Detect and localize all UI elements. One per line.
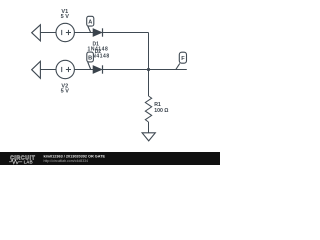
wire xyxy=(74,32,93,34)
wire xyxy=(148,122,150,133)
svg-text:A: A xyxy=(88,20,92,26)
voltage source V2 xyxy=(56,60,74,78)
svg-text:LAB: LAB xyxy=(24,159,33,164)
wire xyxy=(103,32,149,34)
flag B xyxy=(88,62,91,69)
wire xyxy=(103,69,187,71)
diode D2 xyxy=(93,66,102,74)
wire (vertical from top rail) xyxy=(148,33,150,97)
input terminal arrow (row 1) xyxy=(32,25,41,41)
flag F xyxy=(176,63,180,69)
wire xyxy=(40,32,56,34)
flag A xyxy=(88,26,91,33)
footer bar xyxy=(0,152,220,165)
svg-text:F: F xyxy=(181,56,185,62)
input terminal arrow (row 2) xyxy=(32,61,41,78)
ground xyxy=(142,133,155,141)
svg-text:5 V: 5 V xyxy=(61,14,70,20)
svg-text:5 V: 5 V xyxy=(61,89,70,95)
svg-text:100 Ω: 100 Ω xyxy=(154,108,168,114)
wire xyxy=(40,69,56,71)
svg-text:R1: R1 xyxy=(154,102,161,108)
resistor R1 xyxy=(145,96,151,122)
svg-text:B: B xyxy=(88,55,92,61)
wire xyxy=(74,69,93,71)
svg-text:http://circuitlab.com/c4d8334: http://circuitlab.com/c4d8334 xyxy=(44,159,89,163)
node junction xyxy=(147,68,150,71)
svg-text:kim012363 / 2013020392 OR GATE: kim012363 / 2013020392 OR GATE xyxy=(44,155,106,159)
diode D1 xyxy=(93,29,102,37)
voltage source V1 xyxy=(56,23,74,41)
